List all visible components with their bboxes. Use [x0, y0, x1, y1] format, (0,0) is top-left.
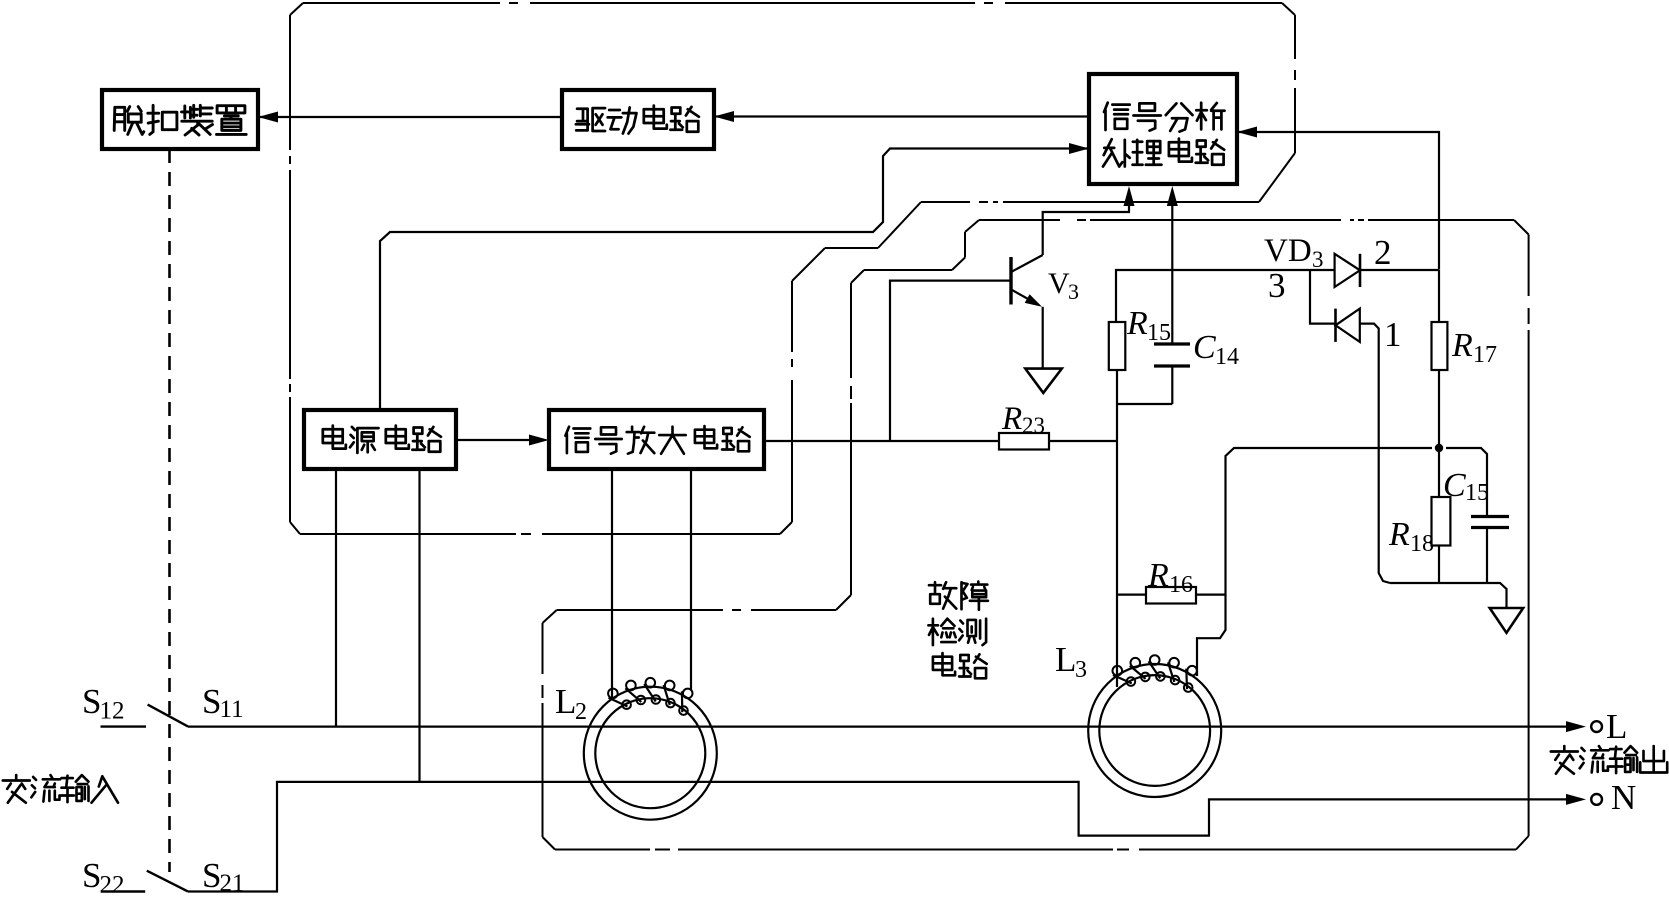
svg-text:21: 21	[220, 870, 245, 893]
ground symbol at R18/C15 bus	[1490, 608, 1524, 633]
svg-text:R: R	[1388, 516, 1410, 553]
wire: ground bus under R18/C15	[1390, 583, 1507, 608]
block: drive circuit 驱动电路	[562, 90, 714, 149]
wire: power supply top to signal analysis input (arrow into box left)	[380, 143, 1089, 410]
wire: amplifier output to R23 to sense node	[764, 440, 1117, 442]
wire: power supply lead to N line	[418, 469, 420, 782]
module boundary: fault detection circuit block (dash-dot chain line)	[543, 220, 1529, 850]
wire: V3 base from amplifier output line	[890, 281, 1011, 441]
label: 交流输出 (AC output)	[1551, 746, 1667, 774]
capacitor C15	[1443, 448, 1509, 583]
svg-text:1: 1	[1384, 315, 1402, 354]
svg-text:3: 3	[1268, 266, 1286, 305]
svg-text:3: 3	[1312, 247, 1324, 272]
wire: C14/R15 node up to signal analysis bottom (up arrow)	[1167, 186, 1178, 343]
svg-text:14: 14	[1215, 344, 1239, 370]
terminal: L output	[1591, 707, 1627, 746]
resistor R16	[1117, 557, 1226, 604]
node: junction dot (R17/R18/C15/R16 net)	[1435, 444, 1443, 452]
svg-text:C: C	[1193, 329, 1216, 366]
svg-text:L: L	[1606, 707, 1627, 746]
svg-text:11: 11	[220, 696, 244, 723]
ground symbol at V3 emitter	[1025, 369, 1062, 393]
switch S11/S12 (L pole)	[82, 682, 244, 727]
wire: junction node to R16 and L3 winding right	[1197, 448, 1432, 676]
terminal: N output	[1591, 778, 1636, 817]
svg-text:2: 2	[575, 699, 587, 725]
svg-text:C: C	[1443, 467, 1466, 504]
transformer L2 (leakage current toroid)	[555, 678, 717, 820]
svg-text:R: R	[1001, 401, 1022, 437]
wire: signal analysis to drive circuit (arrow into drive circuit)	[714, 111, 1089, 122]
wire: R15 bottom node down to R16/L3 winding left	[1116, 404, 1118, 687]
wire: amplifier lead to L2 winding right	[690, 469, 692, 690]
svg-text:L: L	[555, 682, 576, 721]
svg-text:R: R	[1451, 327, 1473, 364]
wire: amplifier lead to L2 winding left	[611, 469, 613, 699]
svg-text:12: 12	[100, 698, 125, 725]
svg-text:15: 15	[1147, 320, 1171, 346]
svg-text:23: 23	[1022, 413, 1045, 438]
module boundary: upper control circuit block (dash-dot chain line)	[290, 3, 1295, 534]
label: 交流输入 (AC input)	[3, 775, 118, 803]
diode VD3 (dual diode), pins 2,3,1	[1264, 233, 1439, 583]
resistor R23	[999, 401, 1049, 450]
svg-text:3: 3	[1068, 279, 1079, 304]
block: power supply circuit 电源电路	[304, 410, 456, 469]
svg-text:V: V	[1048, 267, 1070, 300]
svg-text:3: 3	[1075, 657, 1087, 683]
svg-text:2: 2	[1374, 233, 1392, 272]
capacitor C14	[1117, 329, 1239, 404]
dashed mechanical linkage from trip device to switches	[168, 149, 171, 872]
wire: node 3 horizontal (R15 top / C14 / VD3)	[1116, 270, 1335, 322]
transformer L3 (fault detection toroid)	[1055, 640, 1221, 797]
wire: feedback from node 2 up to signal analysis right side (arrow into box)	[1237, 127, 1439, 270]
resistor R15	[1109, 305, 1171, 404]
switch S21/S22 (N pole)	[82, 856, 245, 898]
svg-text:R: R	[1126, 305, 1148, 342]
svg-text:15: 15	[1465, 480, 1489, 506]
wire: L line from S11 through L2, L3 to output	[188, 721, 1586, 732]
wire: power supply lead to L line	[335, 469, 337, 727]
block: signal amplifier circuit 信号放大电路	[549, 410, 764, 469]
resistor R18	[1388, 448, 1450, 583]
wire: V3 collector to signal analysis bottom (up arrow)	[1043, 186, 1135, 255]
wire: power supply to signal amplifier (arrow)	[456, 435, 549, 446]
resistor R17	[1432, 270, 1498, 448]
transistor V3	[1011, 255, 1079, 368]
block: signal analysis & processing circuit 信号分析处理电路	[1089, 74, 1237, 184]
block: trip device 脱扣装置	[102, 90, 258, 149]
wire: N line from S21 under L3 to output	[188, 782, 1586, 892]
label: 故障检测电路 (fault detection circuit)	[928, 582, 988, 679]
svg-text:22: 22	[100, 872, 125, 894]
svg-text:N: N	[1611, 778, 1636, 817]
svg-text:VD: VD	[1264, 233, 1312, 269]
wire: drive circuit to trip device (arrow into trip device)	[258, 112, 562, 123]
svg-text:18: 18	[1410, 531, 1434, 557]
svg-text:16: 16	[1169, 572, 1193, 598]
svg-text:R: R	[1147, 557, 1169, 594]
svg-text:17: 17	[1473, 342, 1497, 368]
svg-text:L: L	[1055, 640, 1076, 679]
